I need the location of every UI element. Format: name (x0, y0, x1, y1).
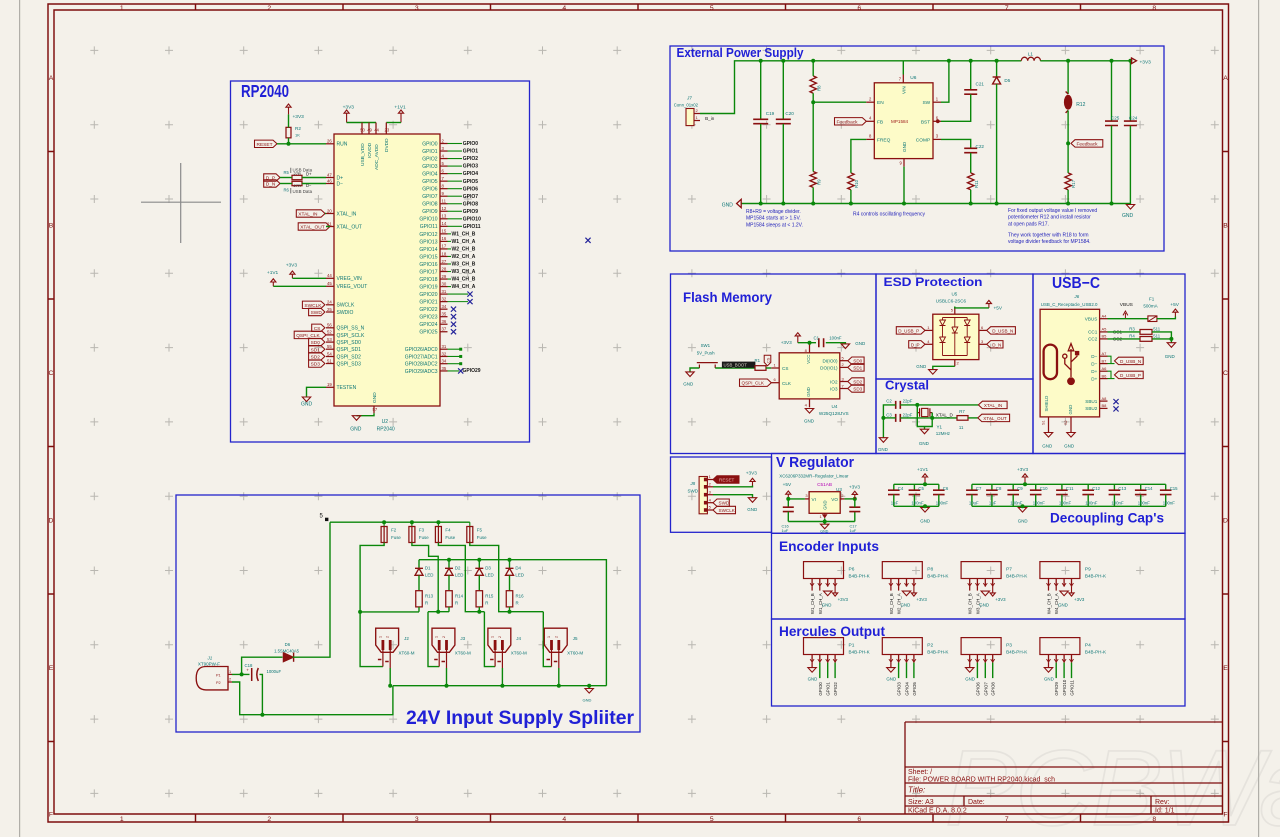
svg-text:Conn_01x02: Conn_01x02 (674, 102, 699, 107)
wire +5V to ESD VBUS pin (955, 307, 989, 308)
svg-text:R: R (455, 601, 458, 606)
wire P4 pin3 GPIO10 (1062, 663, 1067, 696)
svg-text:F2: F2 (391, 528, 397, 533)
capacitor C1 (814, 335, 842, 347)
svg-text:GPIO5: GPIO5 (422, 179, 438, 185)
svg-text:GPIO9: GPIO9 (463, 209, 479, 215)
IC U5 USBLC6-2SC6 (925, 292, 987, 367)
wire R12 to feedback node (1067, 110, 1069, 143)
svg-text:GPIO6: GPIO6 (463, 186, 479, 192)
svg-text:1: 1 (378, 636, 382, 638)
svg-text:C13: C13 (1118, 486, 1126, 491)
wire channel 2 (F3 to R14/J3) (412, 543, 438, 612)
power +3V3 (flash VCC) (781, 333, 801, 346)
wire P8 pin2 label (897, 587, 902, 615)
svg-text:GPIO0: GPIO0 (463, 141, 479, 147)
wire +1V1 to VREG_VOUT (273, 285, 326, 287)
capacitor C20 (776, 61, 794, 204)
svg-text:+3V3: +3V3 (293, 114, 305, 120)
power +1V1 (RP2040 top) (394, 105, 406, 123)
svg-text:C22: C22 (976, 144, 985, 149)
svg-text:GPIO8: GPIO8 (422, 202, 438, 208)
svg-text:C20: C20 (785, 111, 794, 116)
ground (P2) (886, 663, 896, 682)
crystal Y1 12MHz (917, 408, 951, 436)
svg-text:MP1584 starts at > 1.5V.: MP1584 starts at > 1.5V. (746, 216, 801, 222)
svg-text:GPIO27/ADC1: GPIO27/ADC1 (405, 354, 438, 360)
wire P2 pin4 GPIO5 (912, 663, 917, 696)
svg-text:GND: GND (855, 341, 866, 346)
svg-text:They work together with R18 to: They work together with R18 to form (1008, 233, 1089, 239)
svg-text:A8: A8 (1102, 396, 1108, 401)
output rail after L1 (1040, 60, 1130, 62)
svg-text:R16: R16 (516, 594, 525, 599)
ground rail (741, 203, 1131, 205)
svg-text:4: 4 (562, 5, 566, 12)
svg-text:7: 7 (1005, 816, 1009, 823)
svg-text:GPIO21: GPIO21 (419, 300, 437, 306)
svg-text:R10: R10 (854, 179, 859, 188)
svg-text:RP2040: RP2040 (241, 81, 289, 101)
svg-text:QSPI_SCLK: QSPI_SCLK (337, 333, 365, 339)
svg-text:GPIO3: GPIO3 (463, 164, 479, 170)
svg-text:W1_CH_B: W1_CH_B (452, 231, 476, 237)
pin 21 XTAL_OUT (326, 221, 362, 230)
wire J7 to VIN rail (700, 61, 1021, 114)
ground (P4) (1044, 663, 1054, 682)
power +1V1 (decoupling) (917, 467, 928, 484)
connector J5 XT60-M (544, 628, 583, 668)
svg-text:R14: R14 (455, 594, 464, 599)
svg-text:16: 16 (442, 236, 447, 241)
wire D- pins join (1108, 356, 1115, 363)
svg-text:GND: GND (820, 529, 828, 533)
svg-text:XC6206P332MR−Regulator_Linear: XC6206P332MR−Regulator_Linear (779, 474, 849, 479)
svg-text:P2: P2 (927, 643, 933, 649)
svg-text:GND: GND (901, 603, 911, 608)
svg-text:11: 11 (959, 425, 964, 430)
svg-text:DO(IO1): DO(IO1) (820, 365, 838, 370)
svg-text:D: D (1223, 518, 1228, 525)
svg-text:100nF: 100nF (911, 501, 924, 506)
capacitor C16 (782, 499, 794, 533)
wire P2 pin3 GPIO4 (905, 663, 910, 696)
svg-text:GPIO15: GPIO15 (419, 254, 437, 260)
svg-text:R: R (516, 601, 519, 606)
svg-text:LED: LED (515, 572, 524, 577)
svg-text:E: E (49, 665, 54, 672)
svg-text:1: 1 (229, 670, 231, 674)
hier label SWD (309, 308, 325, 315)
svg-text:1: 1 (120, 816, 124, 823)
LED D3 (475, 560, 493, 578)
svg-text:CC2: CC2 (1088, 337, 1098, 342)
svg-text:J1: J1 (207, 656, 213, 661)
hier label SWCLK (J8) (713, 506, 736, 513)
hier label Feedback (R12/R17) (1071, 140, 1103, 147)
svg-text:GPIO2: GPIO2 (463, 156, 479, 162)
section box J8 SWD (671, 457, 772, 532)
svg-text:+3V3: +3V3 (746, 470, 757, 475)
svg-text:25: 25 (327, 307, 332, 312)
pin 36 GPIO24 (419, 319, 456, 328)
svg-text:SD0: SD0 (853, 359, 862, 364)
wire D_P to R5 to D+ pin (280, 177, 292, 179)
svg-text:+3V3: +3V3 (1017, 467, 1028, 472)
svg-text:J8: J8 (689, 481, 695, 486)
svg-text:B_in: B_in (705, 116, 715, 121)
resistor R2 (286, 126, 301, 138)
wire P7 pin2 label (975, 587, 980, 615)
wire P6 pin1 label (810, 587, 815, 615)
resistor R10 (848, 173, 859, 190)
section box Crystal (876, 379, 1033, 454)
svg-text:GPIO11: GPIO11 (1070, 680, 1075, 696)
svg-text:S2: S2 (1064, 420, 1068, 425)
svg-text:IO2: IO2 (830, 379, 838, 384)
wire C2/C3 left to ground (883, 405, 895, 438)
svg-text:GND: GND (301, 402, 313, 408)
svg-text:GPIO1: GPIO1 (463, 149, 479, 155)
svg-text:C21: C21 (976, 82, 985, 87)
svg-text:R1: R1 (755, 358, 761, 363)
wire channel 1 (F2 to R13/J2) (360, 543, 419, 612)
svg-text:F3: F3 (419, 528, 425, 533)
svg-text:P2: P2 (216, 681, 221, 685)
svg-text:+3V3: +3V3 (838, 597, 849, 602)
svg-text:GND: GND (822, 603, 832, 608)
wire channel 4 (F5 to R16/J5) (470, 543, 544, 612)
hier label RESET (J8) (713, 476, 739, 483)
svg-text:+: + (246, 668, 249, 673)
svg-text:Crystal: Crystal (885, 378, 929, 393)
connector J3 XT60-M (432, 628, 471, 668)
fuse F4 (435, 522, 455, 542)
ground (P8) (901, 591, 911, 608)
fuse F2 (381, 522, 401, 542)
svg-text:B: B (1223, 223, 1228, 230)
svg-text:Title:: Title: (908, 786, 925, 795)
svg-text:R8: R8 (817, 85, 822, 91)
svg-text:at open pads R17.: at open pads R17. (1008, 221, 1049, 227)
svg-text:GND: GND (808, 677, 818, 682)
svg-text:B4B-PH-K: B4B-PH-K (849, 574, 871, 579)
svg-text:F5: F5 (477, 528, 483, 533)
svg-text:Hercules Output: Hercules Output (779, 623, 885, 639)
svg-text:W1_CH_B: W1_CH_B (810, 593, 815, 614)
svg-text:27R: 27R (294, 183, 301, 188)
svg-text:C5: C5 (918, 486, 924, 491)
note USB Data top (293, 168, 313, 177)
wire ESD GND pin (933, 366, 955, 369)
capacitor C5 (909, 484, 925, 506)
hier label D_N (264, 180, 280, 187)
fuse F3 (409, 522, 429, 542)
svg-text:D+: D+ (1091, 369, 1097, 374)
svg-text:D2: D2 (455, 565, 461, 570)
svg-text:C3: C3 (886, 413, 892, 418)
capacitor C2 (886, 399, 912, 409)
svg-text:50: 50 (360, 128, 365, 133)
note fixed output voltage (1008, 208, 1097, 227)
svg-text:GND: GND (1165, 354, 1176, 359)
section box Flash Memory (671, 274, 877, 454)
svg-text:1.5SMC40A5: 1.5SMC40A5 (274, 648, 300, 653)
wire P4 pin4 GPIO11 (1070, 663, 1075, 696)
svg-text:XT60-M: XT60-M (511, 651, 527, 656)
svg-text:511: 511 (1153, 333, 1160, 338)
capacitor C11 (1056, 484, 1074, 506)
svg-text:35: 35 (442, 366, 447, 371)
svg-text:SD2: SD2 (853, 380, 862, 385)
power +3V3 (VREG_VIN) (286, 263, 298, 279)
svg-text:31: 31 (442, 344, 447, 349)
svg-text:GPIO8: GPIO8 (463, 201, 479, 207)
wire J4 pin2 to ground rail (501, 668, 503, 686)
svg-text:37: 37 (442, 327, 447, 332)
svg-text:5: 5 (710, 816, 714, 823)
svg-text:P1: P1 (849, 643, 855, 649)
svg-text:J5: J5 (573, 636, 578, 641)
svg-text:GPIO8: GPIO8 (991, 682, 996, 696)
svg-text:100nF: 100nF (1059, 501, 1072, 506)
ground (P9) (1058, 591, 1068, 608)
pin 35 GPIO23 (419, 311, 456, 320)
svg-text:C6: C6 (943, 486, 949, 491)
pin 46 D− (326, 178, 343, 187)
svg-text:D−: D− (337, 181, 344, 187)
resistor R9 (810, 172, 822, 188)
svg-text:A5: A5 (1102, 327, 1108, 332)
svg-text:2: 2 (442, 636, 446, 638)
svg-text:SBU1: SBU1 (1085, 399, 1097, 404)
grid origin marker (141, 163, 221, 243)
svg-text:W3_CH_B: W3_CH_B (452, 262, 476, 268)
connector P9 B4B-PH-K (1040, 562, 1107, 587)
svg-text:23: 23 (385, 128, 390, 133)
svg-text:C15: C15 (1170, 486, 1178, 491)
svg-text:100nF: 100nF (1085, 501, 1098, 506)
ground (P1) (808, 663, 818, 682)
svg-text:GPIO1: GPIO1 (826, 682, 831, 696)
svg-text:44: 44 (327, 273, 332, 278)
pin 15 GPIO12 (419, 229, 475, 238)
ground (flash GND pin) (804, 409, 815, 424)
wire +3V3 to top pins (347, 122, 376, 124)
svg-text:P9: P9 (1085, 567, 1091, 573)
connector P4 B4B-PH-K (1040, 638, 1107, 663)
wire FREQ to R10 to ground rail (851, 139, 866, 173)
wire VIN rail to U6 VIN pin (902, 61, 904, 75)
svg-text:100nF: 100nF (936, 501, 949, 506)
inductor L1 (1021, 52, 1040, 61)
svg-text:MP1584 sleeps at < 1.2V.: MP1584 sleeps at < 1.2V. (746, 222, 803, 228)
hier label Feedback (FB pin) (835, 118, 867, 125)
no-connect SBU2 (1113, 406, 1118, 411)
wire +3V3 to VCC and C1 (798, 342, 816, 344)
power +3V3 (RP2040 top) (343, 105, 355, 123)
svg-text:29: 29 (442, 274, 447, 279)
wire J8 pin2 to +3V3 (713, 486, 753, 487)
svg-text:1uF: 1uF (782, 528, 789, 533)
svg-text:D_P: D_P (911, 342, 920, 347)
svg-text:D: D (49, 518, 54, 525)
power +5V (regulator in) (786, 491, 791, 499)
ground (crystal caps) (878, 438, 889, 452)
svg-text:QSPI_SD3: QSPI_SD3 (337, 361, 362, 367)
svg-text:XTAL_OUT: XTAL_OUT (983, 416, 1007, 421)
svg-text:P3: P3 (1006, 643, 1012, 649)
resistor R1 (755, 358, 767, 370)
resistor R13 (416, 575, 434, 611)
svg-text:GND: GND (886, 677, 896, 682)
hier label SD3 (309, 360, 325, 367)
ground (decoupling) (1018, 506, 1028, 523)
svg-text:USBLC6-2SC6: USBLC6-2SC6 (936, 298, 967, 303)
svg-text:R4: R4 (1129, 333, 1135, 338)
net label CC1 / resistor R3 (1113, 326, 1161, 334)
svg-text:+3V3: +3V3 (1140, 59, 1152, 65)
connector P7 B4B-PH-K (961, 562, 1028, 587)
hier label XTAL_IN (296, 210, 325, 217)
svg-text:27R: 27R (294, 171, 301, 176)
svg-text:F1: F1 (1149, 297, 1155, 302)
svg-text:GND: GND (583, 697, 592, 702)
svg-text:R12: R12 (1076, 102, 1085, 108)
svg-text:L1: L1 (1028, 52, 1034, 58)
svg-text:+5V: +5V (1170, 302, 1179, 308)
svg-text:C11: C11 (1066, 486, 1074, 491)
svg-text:R: R (425, 601, 428, 606)
svg-text:CS: CS (766, 357, 770, 363)
svg-text:B4B-PH-K: B4B-PH-K (1085, 650, 1107, 655)
hier label D_P (264, 174, 280, 181)
svg-text:GND: GND (1018, 519, 1028, 524)
capacitor C19 (753, 61, 774, 204)
svg-text:D4: D4 (515, 565, 521, 570)
svg-text:R4 controls oscillating freque: R4 controls oscillating frequency (853, 212, 925, 218)
svg-text:KiCad E.D.A. 8.0.2: KiCad E.D.A. 8.0.2 (908, 808, 967, 815)
pin 17 GPIO14 (419, 244, 475, 253)
svg-text:GPIO4: GPIO4 (463, 171, 479, 177)
LED D4 (506, 560, 524, 578)
svg-text:22pF: 22pF (903, 413, 913, 418)
hier label D_USB_N (USB) (1115, 357, 1144, 364)
svg-text:TESTEN: TESTEN (337, 385, 357, 391)
pin 9 GPIO7 (422, 191, 478, 200)
diode D6 (274, 642, 300, 662)
power +3V3 (P9) (1069, 587, 1085, 603)
power +3V3 (decoupling) (1017, 467, 1028, 484)
svg-text:D3: D3 (485, 565, 491, 570)
svg-text:GPIO2: GPIO2 (833, 682, 838, 696)
svg-text:1: 1 (491, 636, 495, 638)
power +3V3 (P8) (911, 587, 927, 603)
power +5V (ESD) (986, 300, 1003, 310)
svg-text:DI(IO0): DI(IO0) (822, 358, 838, 363)
hier label QSPI_CLK (294, 331, 326, 338)
hier label SD3 (flash) (848, 385, 864, 392)
svg-text:GPIO9: GPIO9 (1054, 682, 1059, 696)
wire feedback node to R17 to ground rail (1067, 143, 1069, 173)
svg-text:GND: GND (350, 427, 362, 433)
svg-text:GPIO26/ADC0: GPIO26/ADC0 (405, 347, 438, 353)
svg-text:Feedback: Feedback (837, 119, 859, 125)
svg-text:SD1: SD1 (853, 365, 862, 370)
pin 8 GPIO6 (422, 183, 478, 192)
svg-text:SBU2: SBU2 (1085, 406, 1097, 411)
power +3V3 (J8) (746, 470, 757, 485)
IC U4 W25Q128JVS flash (771, 343, 848, 416)
svg-text:GND: GND (916, 364, 927, 369)
svg-text:GND: GND (919, 441, 930, 446)
svg-text:1uF: 1uF (850, 528, 857, 533)
connector J2 XT60-M (376, 628, 415, 668)
svg-text:QSPI_CLK: QSPI_CLK (742, 381, 765, 386)
capacitor C24 (1124, 61, 1138, 204)
net label VBUS (1120, 302, 1133, 319)
svg-text:100nF: 100nF (1111, 501, 1124, 506)
capacitor C13 (1109, 484, 1127, 506)
svg-text:D1: D1 (425, 565, 431, 570)
connector J8 SWD (688, 474, 714, 514)
svg-text:R11: R11 (974, 180, 979, 188)
svg-text:GPIO2: GPIO2 (422, 156, 438, 162)
pin 23 DVDD (384, 123, 390, 153)
svg-text:22pF: 22pF (903, 399, 913, 404)
power +1V1 (VREG_VOUT) (267, 270, 279, 286)
wire P6 pin2 label (818, 587, 823, 615)
svg-text:VREG_VIN: VREG_VIN (337, 276, 363, 282)
svg-text:GND: GND (965, 677, 975, 682)
svg-text:GPIO19: GPIO19 (419, 284, 437, 290)
svg-text:B4B-PH-K: B4B-PH-K (1085, 574, 1107, 579)
svg-text:2: 2 (267, 5, 271, 12)
svg-text:100nF: 100nF (1163, 501, 1176, 506)
svg-text:GPIO7: GPIO7 (983, 682, 988, 696)
svg-text:GPIO13: GPIO13 (419, 239, 437, 245)
wire RESET to RUN pin (277, 143, 326, 145)
svg-text:GPIO14: GPIO14 (419, 247, 437, 253)
svg-text:A: A (49, 75, 54, 82)
svg-text:A7: A7 (1102, 351, 1108, 356)
svg-text:35: 35 (442, 311, 447, 316)
hier label XTAL_OUT (298, 223, 330, 230)
svg-text:GND: GND (920, 519, 930, 524)
resistor R15 (476, 575, 494, 611)
ground (rail left) (722, 199, 742, 208)
svg-text:P6: P6 (849, 567, 855, 573)
svg-text:GPIO22: GPIO22 (419, 307, 437, 313)
wire P4 pin2 GPIO9 (1054, 663, 1059, 696)
section box Hercules Output (772, 619, 1186, 706)
hier label RESET (255, 140, 278, 147)
ground (C1) (841, 341, 866, 349)
svg-text:+1V1: +1V1 (917, 467, 928, 472)
LED D2 (445, 560, 463, 578)
wire C18 node up to D6 (242, 657, 283, 674)
svg-text:1000uF: 1000uF (267, 669, 282, 674)
hier label XTAL_IN (crystal) (978, 401, 1007, 408)
svg-text:VBUS: VBUS (1120, 302, 1133, 308)
svg-text:C2: C2 (886, 399, 892, 404)
svg-text:47: 47 (327, 172, 332, 177)
svg-text:R5: R5 (284, 170, 290, 175)
wire channel 3 (F4 to R15/J4) (438, 543, 484, 612)
capacitor C3 (886, 413, 912, 422)
svg-text:31: 31 (442, 289, 447, 294)
svg-text:W2_CH_B: W2_CH_B (452, 247, 476, 253)
